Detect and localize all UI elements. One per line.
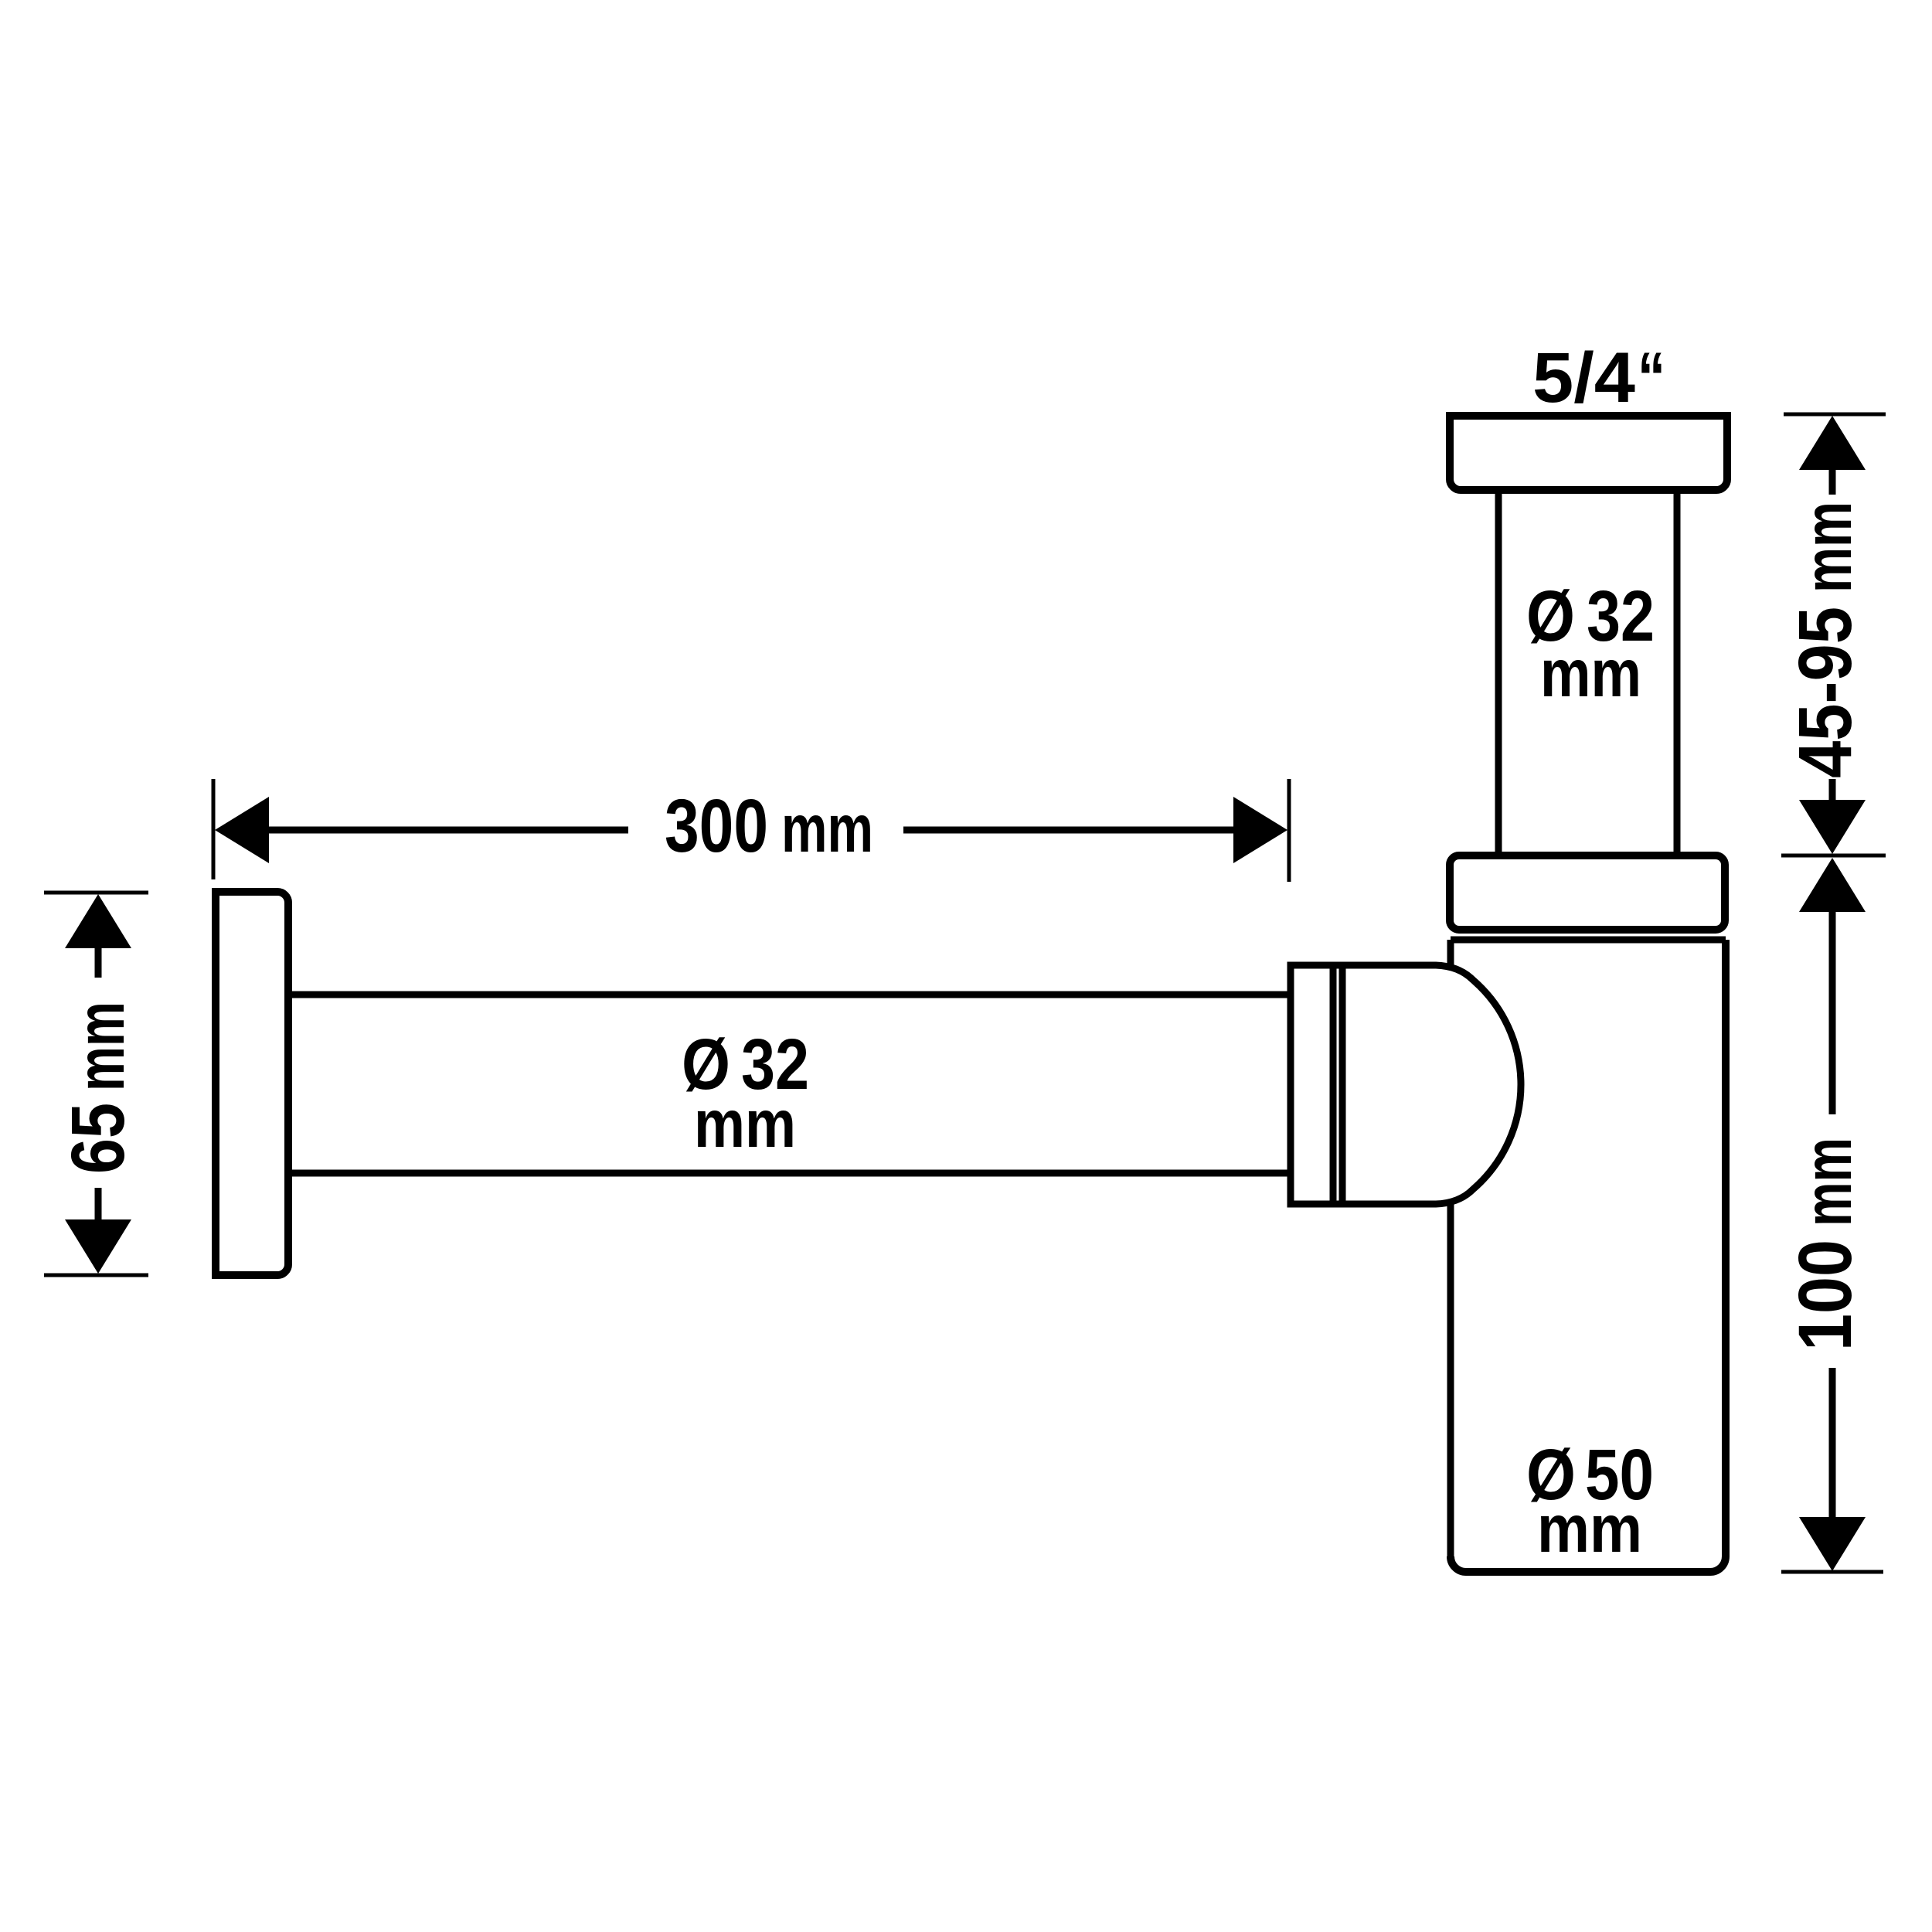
tick bottom (bottle bottom level): [1781, 1570, 1883, 1574]
bottle body top line: [1451, 937, 1726, 944]
300 mm dimension: [212, 779, 216, 879]
elbow inlet with nut: [1291, 965, 1521, 1204]
horizontal outlet pipe: [290, 992, 1291, 998]
svg-text:300: 300: [665, 784, 768, 868]
svg-text:5/4: 5/4: [1532, 338, 1635, 417]
svg-text:100: 100: [1783, 1240, 1867, 1351]
svg-text:“: “: [1638, 338, 1665, 417]
top union nut 5/4": [1450, 416, 1727, 490]
elbow nut double line: [1330, 968, 1337, 1201]
svg-text:mm: mm: [63, 1002, 138, 1091]
wall flange: [216, 892, 288, 1275]
bottle body: [1451, 940, 1726, 1572]
svg-text:mm: mm: [1791, 502, 1866, 593]
svg-text:mm: mm: [1537, 1492, 1642, 1566]
svg-text:65: 65: [56, 1103, 140, 1174]
svg-text:mm: mm: [1540, 636, 1641, 711]
svg-text:mm: mm: [781, 791, 873, 866]
svg-text:mm: mm: [1791, 1138, 1866, 1226]
tick top (nut top level): [1784, 413, 1886, 417]
tick middle (slip nut top level): [1781, 854, 1886, 858]
100 mm dimension: [1799, 858, 1866, 912]
vertical inlet pipe: [1495, 490, 1502, 855]
svg-text:mm: mm: [694, 1087, 796, 1162]
45-95 mm dimension: [1799, 416, 1866, 470]
svg-text:45-95: 45-95: [1783, 607, 1867, 778]
65 mm dimension: [44, 891, 148, 895]
slip nut on bottle top: [1450, 855, 1725, 930]
